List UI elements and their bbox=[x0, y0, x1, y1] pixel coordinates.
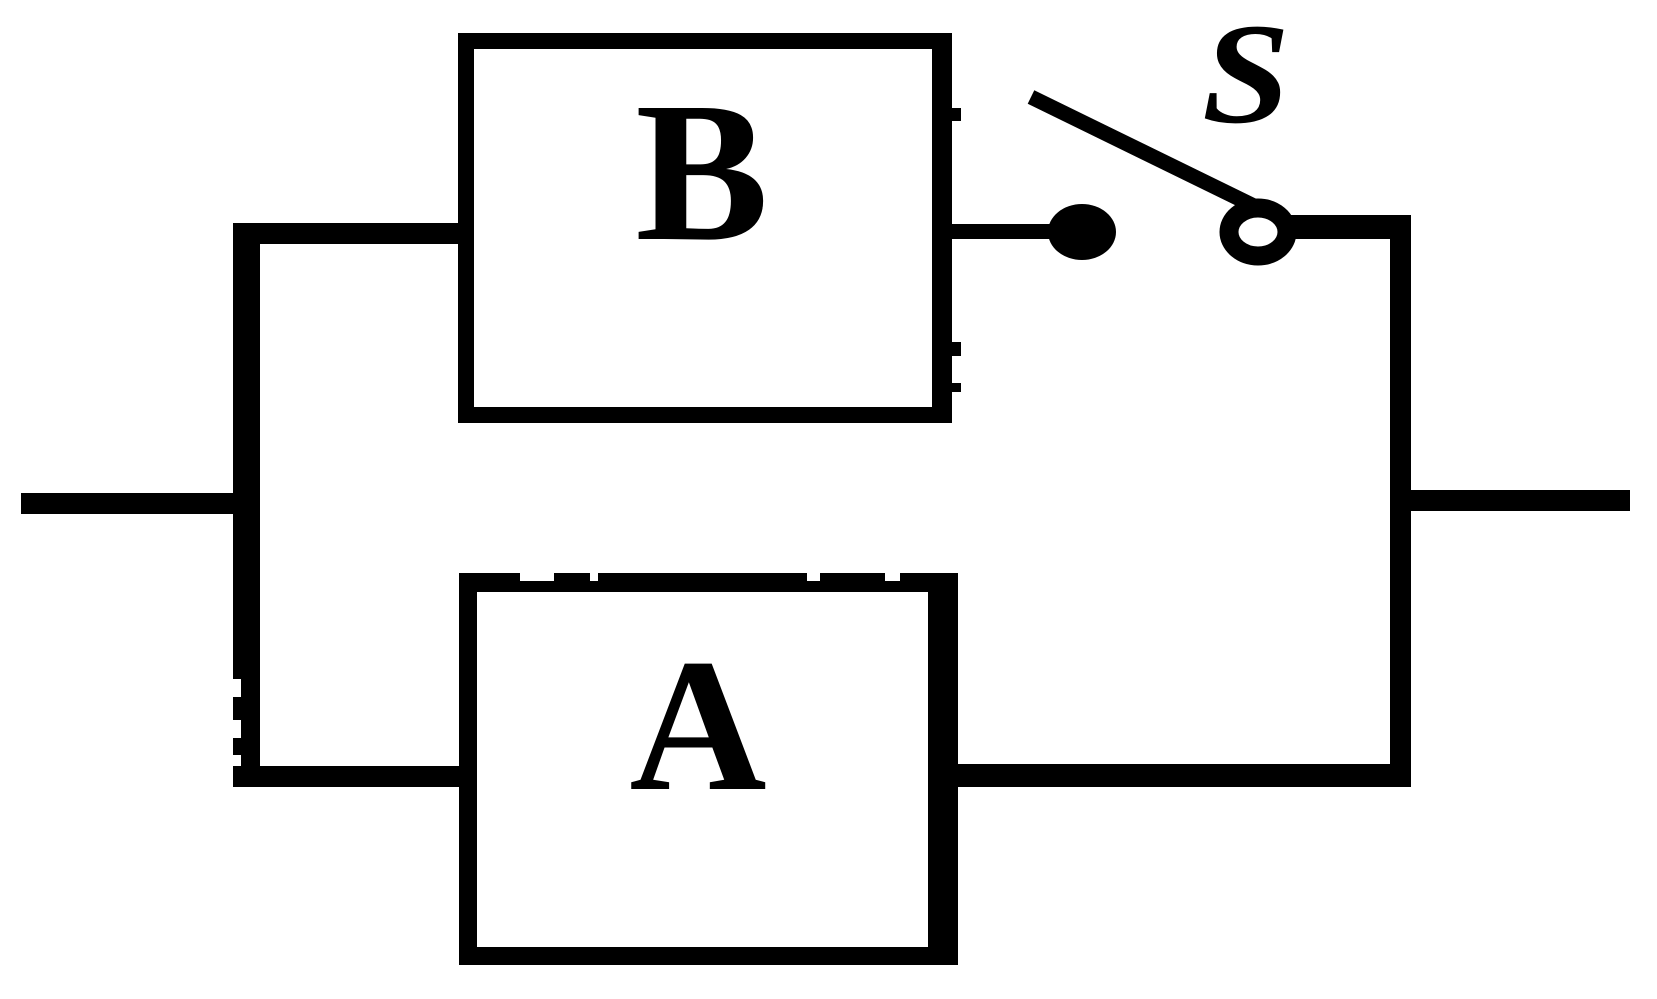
wire: switch to right bus bbox=[1291, 215, 1411, 239]
wire: left bus to box A (bottom rail left) bbox=[233, 766, 473, 787]
box A bbox=[468, 583, 949, 956]
left bus scan nicks bbox=[233, 679, 241, 767]
switch pole dot bbox=[1048, 204, 1116, 260]
left vertical bus wire bbox=[233, 223, 260, 787]
svg-text:B: B bbox=[635, 62, 768, 283]
box B bbox=[466, 41, 944, 415]
left terminal lead wire bbox=[21, 493, 259, 514]
box B right edge scan ticks bbox=[952, 108, 961, 121]
wire: box B to switch pole bbox=[950, 224, 1052, 239]
right vertical bus wire bbox=[1390, 215, 1411, 787]
svg-text:S: S bbox=[1202, 0, 1290, 153]
wire: left bus to box B (top rail) bbox=[233, 223, 473, 244]
box A top edge scan dashes bbox=[520, 571, 900, 581]
switch blade bbox=[1031, 97, 1256, 207]
switch throw contact (open circle) bbox=[1229, 208, 1287, 256]
right terminal lead wire bbox=[1411, 490, 1630, 511]
svg-text:A: A bbox=[629, 621, 766, 831]
wire: box A to right bus (bottom rail right) bbox=[950, 764, 1411, 787]
